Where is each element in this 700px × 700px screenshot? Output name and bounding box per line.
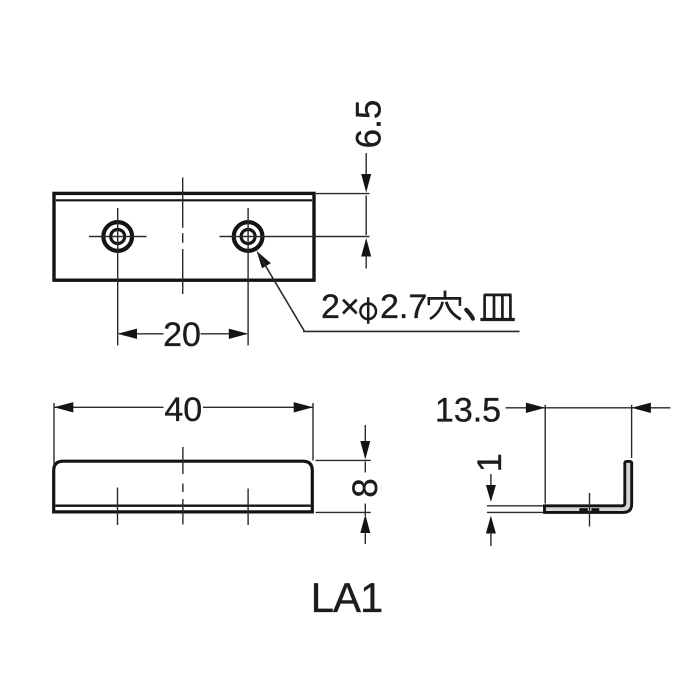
extension line top edge for 6.5 dim xyxy=(316,193,370,195)
dim 6.5 lower line xyxy=(365,255,367,269)
svg-text:8: 8 xyxy=(346,478,385,497)
dim 20 line right xyxy=(201,333,247,335)
hole H2 inner circle xyxy=(241,230,255,244)
svg-text:2.7: 2.7 xyxy=(380,288,427,326)
dim 1 upper line xyxy=(490,474,492,487)
dim 40 left arrowhead xyxy=(54,402,73,412)
dim 40 left extension line xyxy=(53,403,55,466)
leader diagonal line xyxy=(258,253,305,331)
kanji ana (hole) xyxy=(428,291,462,320)
hole H1 countersink outer circle xyxy=(103,222,132,251)
dim 13.5 line xyxy=(506,407,671,409)
svg-text:40: 40 xyxy=(164,391,202,429)
dim 8 top extension line xyxy=(316,459,371,461)
dim 40 line left xyxy=(54,406,164,408)
dim 13.5 left extension line xyxy=(544,405,546,504)
dim 6.5 middle line xyxy=(365,196,367,236)
side view countersink hidden dash left xyxy=(579,508,588,511)
side view countersink hidden dash right xyxy=(591,508,599,511)
svg-text:2×: 2× xyxy=(321,288,360,326)
dim 8 lower line xyxy=(364,532,366,545)
dim 40 line right xyxy=(203,406,313,408)
dim 6.5 upper line xyxy=(365,153,367,176)
front view hole H2 centerline xyxy=(247,489,249,526)
dim 1 lower line xyxy=(490,532,492,546)
dim 1 lower arrowhead (up) xyxy=(486,516,496,534)
dim 8 upper arrowhead (down) xyxy=(360,441,370,460)
dim 6.5 lower arrowhead (up) xyxy=(361,238,371,257)
svg-text:LA1: LA1 xyxy=(311,574,383,621)
callout phi symbol xyxy=(360,297,376,324)
dim 1 bottom extension line xyxy=(487,511,543,513)
dim 20 line left xyxy=(119,333,164,335)
dim 13.5 right arrowhead (left pointing) xyxy=(632,403,651,413)
svg-text:1: 1 xyxy=(471,453,509,472)
svg-text:13.5: 13.5 xyxy=(435,391,501,429)
dim 8 line stub below top extension xyxy=(364,462,366,473)
kanji sara (countersunk) xyxy=(480,295,514,320)
leader arrowhead at hole H2 xyxy=(257,251,271,268)
dim 40 right extension line xyxy=(312,403,314,461)
front view flange top line xyxy=(55,505,310,507)
svg-text:20: 20 xyxy=(163,316,201,354)
dim 8 upper line xyxy=(364,425,366,442)
hole H2 countersink outer circle xyxy=(234,222,263,251)
hole H1 inner circle xyxy=(111,230,125,244)
top view bend line (flange edge) xyxy=(56,199,312,201)
dim 40 right arrowhead xyxy=(294,402,313,412)
side view L profile xyxy=(545,461,632,512)
dim 6.5 upper arrowhead (down) xyxy=(361,174,371,193)
hole H1 crosshair xyxy=(89,208,147,346)
front view part centerline dash-dot xyxy=(182,447,184,525)
dim 8 line stub above bottom extension xyxy=(364,504,366,516)
dim 13.5 right extension line xyxy=(631,405,633,458)
dim 13.5 left arrowhead (right pointing) xyxy=(526,403,545,413)
svg-text:6.5: 6.5 xyxy=(349,100,388,149)
front view outline xyxy=(54,461,313,512)
dim 1 upper arrowhead (down) xyxy=(486,485,496,502)
dim 8 bottom extension line xyxy=(316,511,371,513)
hole H2 crosshair xyxy=(220,208,370,346)
dim 8 lower arrowhead (up) xyxy=(360,515,370,534)
side view hole centerline xyxy=(589,493,591,527)
dim 20 left arrowhead xyxy=(118,329,137,339)
dim 20 right arrowhead xyxy=(229,329,248,339)
leader underline xyxy=(303,330,520,332)
front view hole H1 centerline xyxy=(117,488,119,526)
part centerline (vertical dash-dot) xyxy=(182,178,184,295)
top view outline rectangle xyxy=(54,193,314,280)
dim 1 top extension line xyxy=(487,505,543,507)
ideographic comma xyxy=(466,310,473,319)
